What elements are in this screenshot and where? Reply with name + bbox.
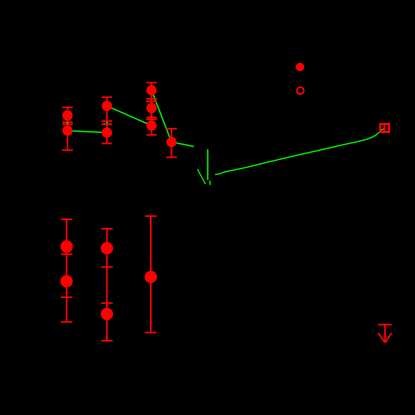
error bar P1b [62,124,73,150]
error bar P4 [166,129,177,158]
point P3a [146,85,156,95]
green peek dot cluster1 [67,122,69,124]
green dip vertical [207,149,209,180]
point P2b [102,127,112,137]
point L1b [60,275,72,287]
red limit arrow cap [378,324,392,326]
red limit arrow shaft [384,325,386,342]
green peek dot cluster2 [106,122,108,124]
error bar P2b [102,124,113,144]
legend open circle [297,87,304,94]
point L1a [60,240,72,252]
point P3c [146,120,156,130]
point P1a [62,110,72,120]
red limit arrow left wing [378,333,385,343]
point P1b [62,125,72,135]
point P3b [146,103,156,113]
error bar L3 [145,216,157,332]
wire series segment 2 [107,106,152,126]
error bar P3b [146,101,157,117]
point P2a [102,101,112,111]
error bar P2a [102,97,113,121]
error bar P1a [62,107,73,122]
error bars L2 [101,229,113,341]
error bar P3a [146,83,157,135]
point L3 [145,271,157,283]
square marker error bar [383,123,385,133]
green connecting polyline (series line) [68,131,107,133]
point P4 [166,137,176,147]
error bars L1 [61,219,73,322]
error bar P3c [146,119,157,135]
green long line to square [215,128,385,174]
green dip tip dash [209,181,212,185]
open square marker [380,124,389,132]
red limit arrow right wing [385,333,392,343]
wire series segment 3 [152,90,195,146]
legend filled circle [296,63,304,71]
point L2b [101,308,113,320]
point L2a [101,242,113,254]
green dip left wing [197,169,205,184]
